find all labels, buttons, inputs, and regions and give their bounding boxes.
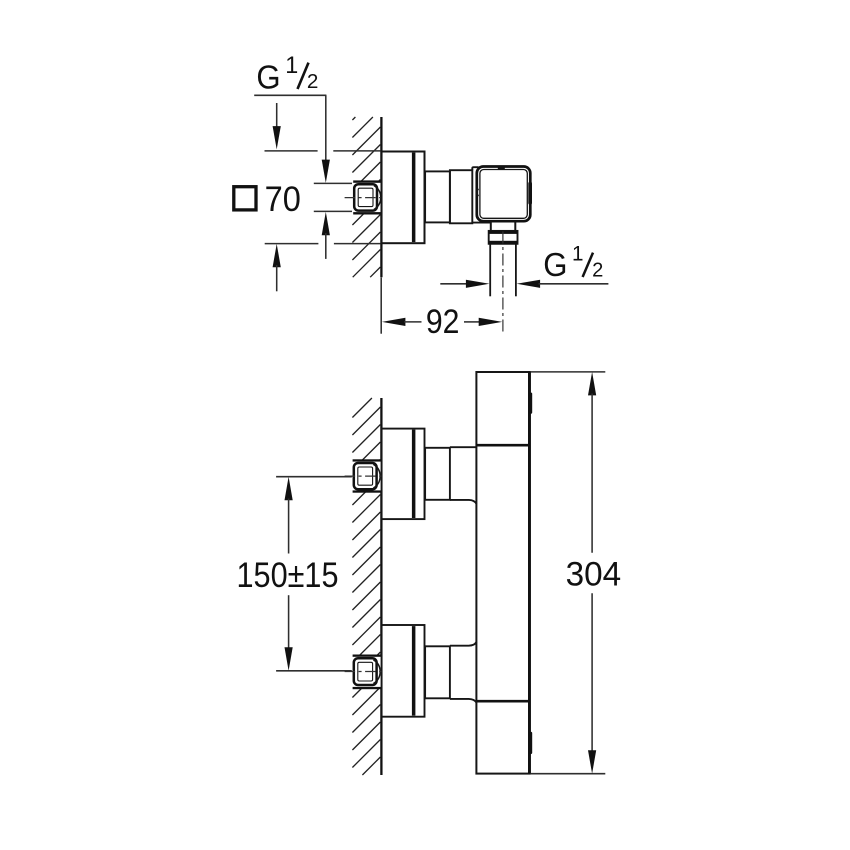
dimension arrow down to escutcheon top bbox=[273, 103, 281, 149]
outlet pipe bbox=[490, 244, 516, 296]
upper escutcheon front edge thick line bbox=[412, 430, 416, 518]
svg-text:2: 2 bbox=[592, 260, 603, 282]
top view: wall face line bbox=[380, 117, 382, 277]
lower escutcheon front edge thick line bbox=[412, 626, 416, 716]
92 dimension: left arrow bbox=[382, 318, 422, 326]
G 1/2 outlet dimension line, right arrow bbox=[517, 280, 609, 288]
304 dimension line with arrows bbox=[588, 372, 596, 774]
union nut (top view) lower lip bbox=[353, 212, 380, 214]
svg-text:92: 92 bbox=[426, 303, 460, 341]
150 dimension extension line lower bbox=[276, 670, 352, 672]
upper escutcheon (front view) bbox=[382, 429, 425, 519]
svg-text:2: 2 bbox=[307, 70, 319, 93]
upper connector cylinder 2 with fillet bbox=[450, 447, 477, 504]
svg-text:304: 304 bbox=[566, 556, 622, 594]
outlet stub below handle bbox=[491, 221, 516, 231]
svg-text:G: G bbox=[543, 247, 567, 284]
extension line: escutcheon bottom bbox=[265, 243, 381, 245]
body joint line upper bbox=[476, 444, 530, 447]
upper connector cylinder 1 bbox=[425, 448, 450, 500]
lower connector cylinder 2 with fillets bbox=[450, 642, 477, 703]
lower union nut lips bbox=[353, 655, 381, 690]
upper union nut inner line bbox=[358, 467, 373, 485]
svg-text:70: 70 bbox=[265, 180, 301, 219]
svg-text:1: 1 bbox=[572, 242, 584, 266]
label G 1/2 (outlet) bbox=[543, 242, 603, 285]
front view: wall hatching bbox=[352, 398, 380, 775]
150 dimension line with arrows bbox=[285, 477, 293, 671]
front view: wall face line bbox=[380, 398, 382, 775]
handle (top view) outer bbox=[477, 167, 531, 222]
outlet centerline (dash-dot) bbox=[502, 232, 504, 334]
valve body (front view) bbox=[476, 372, 530, 774]
leader line under G 1/2 going down to thread bbox=[254, 95, 330, 183]
handle (top view) inner line bbox=[480, 170, 527, 219]
body grip tab upper bbox=[529, 393, 532, 414]
label G 1/2 (top) bbox=[256, 52, 318, 96]
hose collar bbox=[489, 231, 518, 244]
150 dimension extension line upper bbox=[276, 476, 352, 478]
extension line: thread bottom bbox=[314, 210, 353, 212]
lower union nut inner line bbox=[358, 662, 373, 681]
union nut inner line (top view) bbox=[358, 188, 373, 206]
body grip tab lower bbox=[529, 732, 532, 754]
lower connector cylinder 1 bbox=[425, 646, 450, 698]
wall opening behind nut (top view) bbox=[352, 183, 381, 213]
handle grip tab (top view) bbox=[528, 182, 532, 205]
extension line: escutcheon top bbox=[265, 150, 381, 152]
union nut (top view) body bbox=[354, 184, 377, 210]
top view: wall hatching bbox=[352, 117, 380, 277]
304 dimension extension line lower bbox=[531, 773, 605, 775]
92 dimension: right arrow bbox=[464, 318, 502, 326]
body joint line lower bbox=[476, 700, 530, 703]
wall opening behind lower nut bbox=[352, 657, 381, 688]
upper nut centerline (dash-dot) bbox=[345, 475, 382, 477]
escutcheon (top view) bbox=[382, 152, 425, 244]
svg-text:1: 1 bbox=[285, 52, 298, 79]
extension line: thread top bbox=[314, 182, 353, 184]
union nut chamfer arc bbox=[374, 186, 381, 210]
valve body right edge (thick) bbox=[528, 372, 531, 774]
G 1/2 outlet dimension line, left arrow bbox=[440, 280, 489, 288]
lower nut chamfer arc bbox=[373, 660, 380, 684]
svg-text:150±15: 150±15 bbox=[237, 556, 339, 595]
connector cylinder 1 (top view) bbox=[425, 171, 450, 222]
wall face extension line down bbox=[380, 277, 382, 333]
lower nut centerline (dash-dot) bbox=[345, 671, 382, 673]
union nut (top view) upper lip bbox=[353, 180, 380, 182]
dimension arrow up to escutcheon bottom bbox=[273, 244, 281, 291]
connector cylinder 2 (top view) bbox=[450, 170, 472, 223]
304 dimension extension line upper bbox=[531, 371, 605, 373]
nut centerline (dash-dot) bbox=[345, 197, 382, 199]
square symbol of 70 dimension bbox=[234, 187, 256, 210]
lower union nut bbox=[354, 658, 377, 685]
upper union nut lips bbox=[353, 459, 381, 492]
lower escutcheon (front view) bbox=[382, 625, 425, 717]
valve body base (top view) bbox=[472, 167, 490, 222]
svg-text:G: G bbox=[256, 59, 280, 96]
escutcheon front edge thick line bbox=[412, 153, 416, 243]
handle top notch bbox=[498, 166, 505, 169]
handle left crescent bbox=[477, 189, 479, 197]
upper union nut bbox=[354, 463, 377, 489]
wall opening behind upper nut bbox=[352, 461, 381, 490]
dimension arrow up to thread bottom bbox=[322, 212, 330, 259]
upper nut chamfer arc bbox=[373, 464, 380, 488]
